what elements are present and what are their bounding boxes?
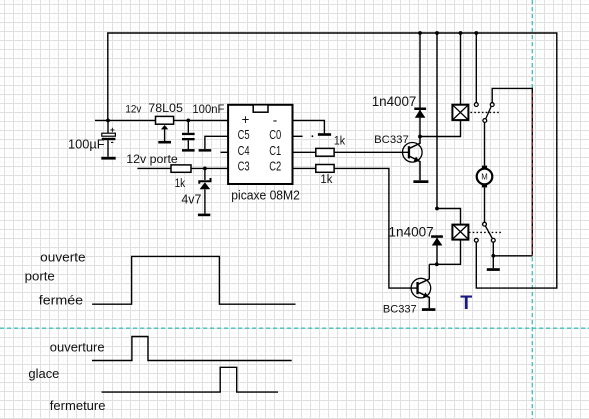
svg-text:BC337: BC337: [383, 304, 417, 316]
svg-text:ouverture: ouverture: [50, 339, 105, 354]
svg-text:-: -: [111, 137, 114, 148]
svg-text:4v7: 4v7: [181, 193, 201, 207]
svg-text:1k: 1k: [320, 172, 333, 186]
svg-text:T: T: [460, 292, 472, 314]
svg-text:fermeture: fermeture: [50, 398, 106, 413]
svg-text:C4: C4: [238, 143, 250, 158]
svg-text:1n4007: 1n4007: [372, 94, 417, 109]
svg-text:C5: C5: [238, 127, 250, 142]
svg-text:1k: 1k: [334, 134, 346, 148]
svg-text:-: -: [273, 112, 278, 127]
svg-text:porte: porte: [25, 269, 55, 284]
svg-text:C1: C1: [269, 143, 281, 158]
svg-text:12v: 12v: [125, 104, 142, 116]
svg-text:picaxe 08M2: picaxe 08M2: [231, 187, 299, 202]
svg-text:+: +: [110, 124, 115, 134]
svg-text:M: M: [481, 172, 488, 181]
svg-text:1n4007: 1n4007: [389, 224, 434, 239]
svg-text:C0: C0: [269, 127, 281, 142]
svg-text:78L05: 78L05: [148, 101, 183, 115]
svg-text:BC337: BC337: [374, 134, 409, 146]
svg-text:1k: 1k: [175, 176, 186, 190]
svg-text:100nF: 100nF: [192, 102, 224, 116]
svg-text:glace: glace: [28, 366, 59, 381]
svg-text:12v porte: 12v porte: [126, 152, 178, 166]
svg-text:C3: C3: [238, 159, 250, 174]
svg-text:ouverte: ouverte: [40, 250, 85, 265]
svg-text:+: +: [242, 112, 250, 127]
svg-text:fermée: fermée: [39, 293, 83, 308]
svg-text:100µF: 100µF: [68, 137, 105, 152]
svg-text:C2: C2: [269, 159, 281, 174]
